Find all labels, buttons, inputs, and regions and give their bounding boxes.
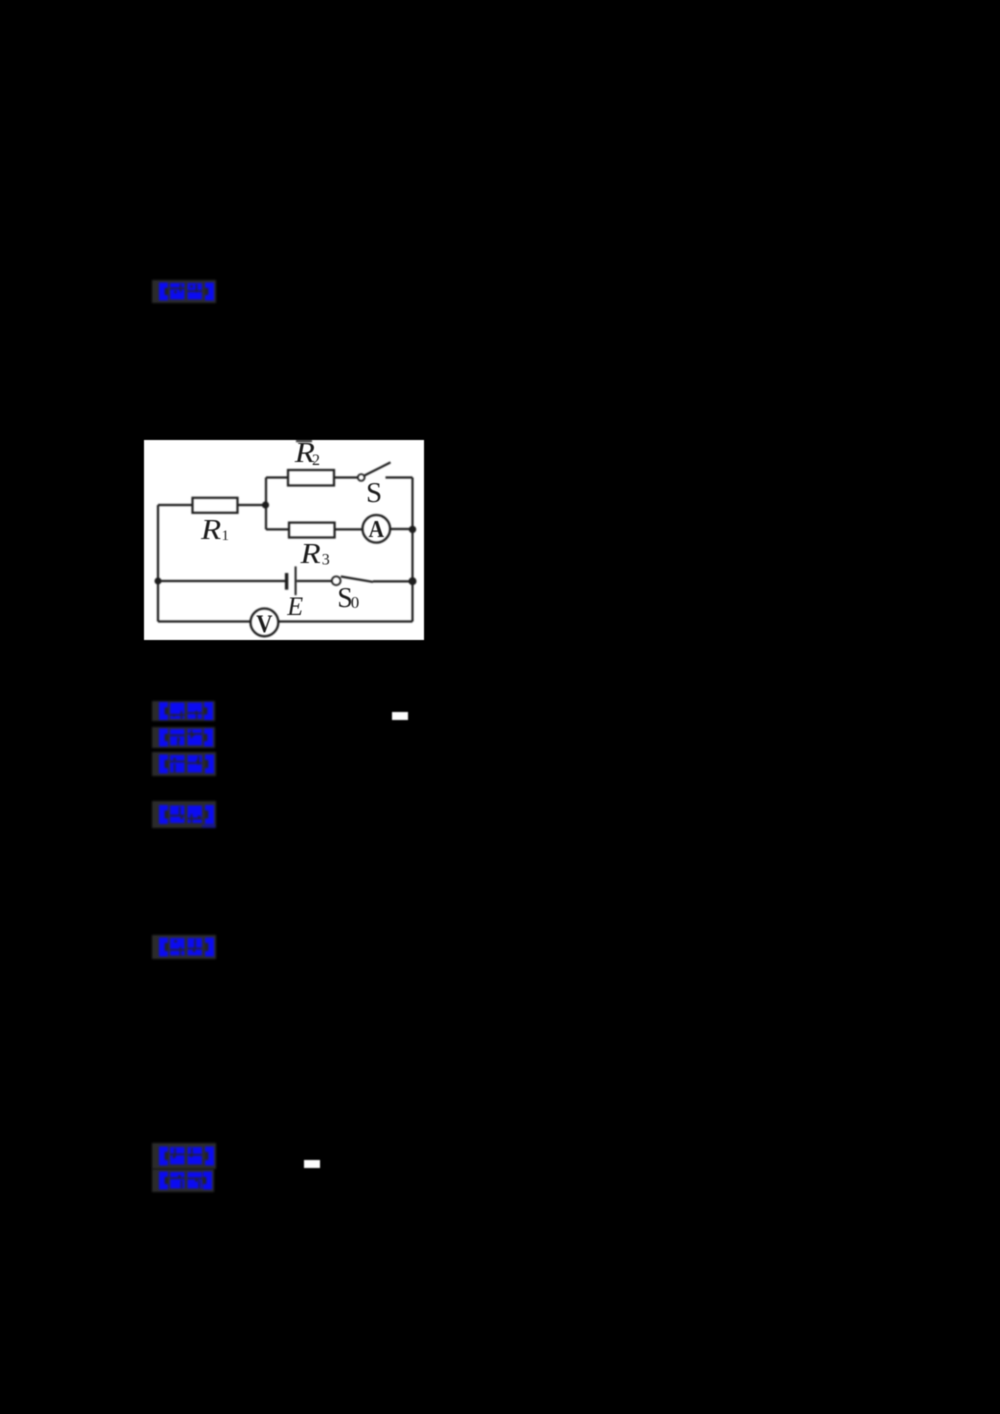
wire: left vertical [157, 505, 159, 622]
junction node d [409, 577, 417, 585]
marker dianping-2 点评 [152, 935, 216, 959]
marker kaodian-2 考点 [152, 1143, 216, 1169]
junction node a [262, 501, 269, 508]
wire: R3 row [266, 528, 413, 531]
marker fenxi-2 分析 [152, 1169, 214, 1192]
battery plate long [295, 566, 297, 595]
white dash 1 [392, 712, 408, 720]
junction node c [155, 578, 162, 585]
white dash 2 [304, 1160, 320, 1168]
svg-text:3: 3 [322, 552, 330, 569]
svg-text:E: E [286, 592, 303, 621]
wire: right vertical [411, 478, 413, 622]
svg-text:A: A [368, 516, 384, 542]
voltmeter V [251, 609, 279, 637]
svg-text:V: V [256, 611, 272, 638]
svg-text:1: 1 [222, 528, 230, 544]
wire: battery row [158, 580, 413, 583]
resistor R1 [193, 498, 238, 513]
wire: R2 row [266, 476, 413, 478]
svg-text:0: 0 [351, 593, 360, 612]
marker zhuanti 专题 [152, 727, 215, 748]
wire: R1 row [158, 504, 266, 506]
junction node b [409, 526, 416, 533]
svg-text:S: S [366, 477, 382, 509]
marker dianping-1 点评 [152, 280, 216, 303]
marker jieda 解答 [152, 801, 216, 828]
svg-text:R: R [200, 514, 222, 545]
wire: bottom run [158, 620, 413, 622]
battery plate short [285, 573, 288, 590]
svg-text:R: R [299, 538, 321, 569]
circuit figure panel [144, 440, 424, 640]
wire: middle vertical [265, 478, 267, 530]
switch S0 [332, 576, 341, 585]
marker fenxi-1 分析 [152, 752, 216, 776]
svg-text:2: 2 [312, 452, 320, 469]
cropped glyph smudge [296, 440, 312, 442]
marker kaodian-1 考点 [152, 701, 215, 721]
ammeter A [363, 515, 391, 543]
resistor R2 [288, 470, 334, 486]
switch S [358, 474, 365, 481]
resistor R3 [289, 523, 335, 538]
